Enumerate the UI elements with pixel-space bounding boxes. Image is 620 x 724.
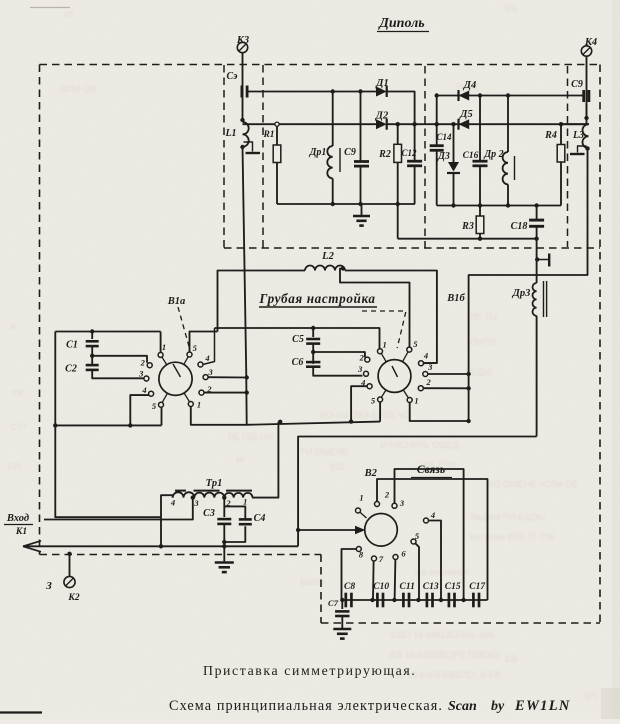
svg-text:ОНТО: ОНТО	[470, 337, 496, 347]
svg-text:С4: С4	[254, 513, 266, 524]
svg-text:1: 1	[414, 396, 418, 406]
svg-text:2: 2	[140, 358, 146, 368]
svg-text:С9: С9	[344, 147, 356, 158]
svg-text:ЕП: ЕП	[585, 692, 597, 702]
svg-text:Др3: Др3	[512, 288, 531, 299]
svg-text:4: 4	[141, 385, 146, 395]
svg-text:4: 4	[430, 510, 435, 520]
svg-text:L3: L3	[572, 130, 584, 141]
svg-text:Д3: Д3	[437, 151, 450, 162]
svg-text:С2: С2	[65, 364, 77, 375]
svg-text:R2: R2	[378, 149, 391, 160]
svg-text:L1: L1	[224, 128, 236, 139]
svg-text:3: 3	[138, 369, 144, 379]
svg-text:Приставка симметрирующая.: Приставка симметрирующая.	[203, 663, 416, 678]
svg-text:С18: С18	[511, 221, 528, 232]
svg-text:К2: К2	[67, 593, 79, 603]
svg-text:Др1: Др1	[309, 147, 327, 158]
svg-text:4: 4	[170, 498, 175, 508]
svg-text:Д5: Д5	[459, 109, 472, 120]
svg-text:С7: С7	[328, 598, 339, 608]
svg-text:С9: С9	[571, 79, 583, 90]
svg-text:2: 2	[425, 377, 431, 387]
svg-text:К4: К4	[584, 37, 597, 48]
svg-text:3: 3	[357, 364, 363, 374]
svg-text:Сэ: Сэ	[227, 71, 238, 82]
svg-text:З: З	[45, 580, 52, 592]
svg-text:1: 1	[382, 340, 386, 350]
svg-text:5: 5	[413, 339, 418, 349]
svg-text:Задняя ПЛ-ЕЩЗЫ: Задняя ПЛ-ЕЩЗЫ	[470, 512, 546, 522]
svg-text:ЛЕ ТЫ: ЛЕ ТЫ	[470, 312, 498, 322]
svg-text:Вход: Вход	[6, 513, 29, 524]
svg-text:С16: С16	[463, 151, 479, 161]
svg-text:С8: С8	[344, 582, 355, 592]
svg-text:Катушка ВТВ.77.736: Катушка ВТВ.77.736	[470, 532, 555, 542]
svg-text:С11: С11	[400, 582, 415, 592]
svg-text:ШЛИ ОВ: ШЛИ ОВ	[60, 84, 96, 94]
svg-text:С17: С17	[469, 582, 486, 592]
svg-text:К1: К1	[15, 527, 27, 537]
svg-text:Д1: Д1	[375, 78, 388, 89]
svg-text:4: 4	[423, 351, 428, 361]
svg-text:Scan: Scan	[448, 699, 477, 714]
svg-text:Тр1: Тр1	[206, 478, 223, 489]
svg-text:ЕВ 18-638ЕВС(РЕ ПВЕЖЕ: ЕВ 18-638ЕВС(РЕ ПВЕЖЕ	[390, 650, 501, 660]
svg-text:Д4: Д4	[463, 80, 476, 91]
svg-text:5: 5	[193, 343, 198, 353]
svg-text:ВЕ ПШ ОЛ: ВЕ ПШ ОЛ	[228, 432, 273, 442]
svg-text:С13: С13	[423, 582, 439, 592]
svg-text:В2: В2	[364, 468, 378, 479]
svg-text:ТИ ОШЕЛВ: ТИ ОШЕЛВ	[300, 447, 348, 457]
svg-text:2: 2	[384, 490, 390, 500]
svg-text:К3: К3	[236, 35, 249, 46]
svg-text:ж: ж	[10, 322, 16, 332]
svg-text:С14: С14	[436, 132, 452, 142]
svg-text:аш виенвнея: аш виенвнея	[415, 567, 469, 577]
svg-text:еж: еж	[12, 387, 23, 397]
svg-text:ЕШЗБ: ЕШЗБ	[300, 577, 326, 587]
svg-text:1: 1	[243, 497, 247, 507]
svg-text:В1а: В1а	[167, 296, 186, 307]
svg-text:С6: С6	[292, 357, 304, 368]
svg-text:4: 4	[204, 353, 209, 363]
svg-text:С3: С3	[203, 508, 215, 519]
svg-text:В1б: В1б	[446, 293, 465, 304]
svg-text:L2: L2	[321, 251, 334, 262]
svg-text:С-П: С-П	[10, 422, 26, 432]
svg-text:лТ: лТ	[63, 10, 74, 20]
svg-text:EW1LN: EW1LN	[514, 698, 571, 714]
svg-text:Д2: Д2	[375, 111, 389, 122]
svg-text:Связь: Связь	[417, 464, 445, 476]
svg-text:ЕП: ЕП	[8, 462, 20, 472]
svg-text:Ы: Ы	[236, 454, 244, 464]
svg-text:3: 3	[193, 498, 199, 508]
svg-text:1: 1	[197, 400, 201, 410]
svg-text:by: by	[491, 699, 505, 714]
svg-text:R1: R1	[262, 130, 274, 140]
svg-text:1: 1	[162, 342, 166, 352]
svg-text:ЕВ: ЕВ	[505, 654, 517, 664]
svg-text:ЕШП 18-686(ЗЕГ40Ь иВБ: ЕШП 18-686(ЗЕГ40Ь иВБ	[390, 630, 496, 640]
svg-text:ЕВ: ЕВ	[505, 4, 517, 14]
svg-text:С10: С10	[373, 582, 389, 592]
svg-text:Диполь: Диполь	[377, 16, 424, 31]
svg-text:R4: R4	[544, 130, 557, 141]
svg-text:С12: С12	[401, 148, 417, 158]
svg-text:Схема принципиальная электриче: Схема принципиальная электрическая.	[169, 698, 443, 714]
svg-text:3: 3	[399, 498, 405, 508]
svg-text:лО ОШЕНЕ пОЛм ОЕ: лО ОШЕНЕ пОЛм ОЕ	[488, 479, 578, 489]
svg-text:ЕО-тЫ О9Э ЕЛВЕ чО: ЕО-тЫ О9Э ЕЛВЕ чО	[320, 410, 410, 420]
svg-text:ИЛ-ВО-ЕПЬ ОШЕД: ИЛ-ВО-ЕПЬ ОШЕД	[380, 440, 459, 450]
svg-text:ЕШ: ЕШ	[330, 462, 344, 472]
svg-text:2: 2	[359, 352, 365, 362]
svg-text:R3: R3	[461, 221, 474, 232]
svg-text:Грубая настройка: Грубая настройка	[258, 291, 375, 306]
svg-text:Др 2: Др 2	[483, 149, 503, 160]
svg-text:С15: С15	[445, 582, 461, 592]
svg-text:1: 1	[359, 493, 363, 503]
svg-text:3: 3	[207, 367, 213, 377]
svg-text:С1: С1	[66, 340, 78, 351]
svg-text:С5: С5	[292, 334, 304, 345]
